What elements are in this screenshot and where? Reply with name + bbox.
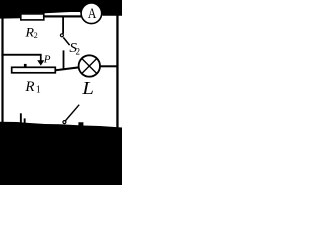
bottom switch pivot contact: [63, 121, 66, 124]
wire: top horizontal (R2 to ammeter): [43, 15, 81, 17]
svg-text:A: A: [88, 4, 97, 21]
svg-text:R: R: [24, 79, 34, 95]
wire: S2 branch lower vertical: [63, 50, 65, 69]
wire: S2 branch upper vertical: [62, 17, 64, 34]
bottom switch blade: [65, 105, 79, 121]
lamp L (circle with X): [79, 55, 100, 76]
wire: left vertical: [1, 17, 3, 123]
rheostat R1 (box): [12, 67, 56, 73]
battery cell: short plate (-): [24, 118, 26, 123]
wire: lamp right to right wire: [101, 65, 119, 67]
svg-text:1: 1: [36, 85, 41, 96]
bottom scan border bar: [0, 122, 122, 185]
svg-text:2: 2: [34, 31, 38, 40]
svg-text:L: L: [81, 79, 94, 98]
svg-text:P: P: [43, 54, 51, 66]
wire: R1 right to lamp junction: [56, 66, 79, 71]
switch S2 blade: [63, 37, 69, 45]
rheostat slider arrow P: [40, 54, 42, 61]
resistor R2 (box): [21, 14, 44, 20]
wire: right vertical: [116, 15, 118, 128]
svg-text:2: 2: [76, 47, 81, 57]
top scan border bar: [0, 0, 122, 19]
wire: horizontal to P arrow: [1, 54, 41, 56]
rheostat R1 left contact nub: [24, 64, 27, 67]
ammeter U1 (circle): [81, 3, 102, 24]
battery cell: long plate (+): [20, 113, 22, 123]
svg-text:R: R: [24, 25, 34, 39]
switch S2 contact: [60, 34, 63, 37]
